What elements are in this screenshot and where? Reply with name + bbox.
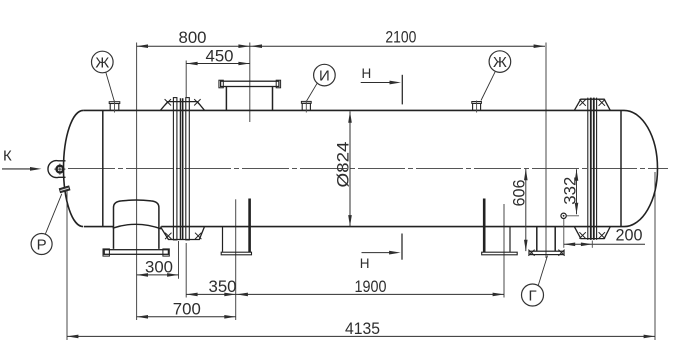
weld mark X bottom-right (195, 233, 201, 239)
centerline (vessel axis, dash-dot) (68, 168, 668, 170)
svg-text:Г: Г (528, 287, 536, 304)
bottom-left nozzle / shell intersection arc (113, 224, 162, 229)
nozzle И (small, mid) (302, 103, 310, 110)
dim 332 vertical (576, 169, 578, 214)
dim 4135 (67, 335, 655, 337)
dim 700 (137, 316, 236, 318)
saddle right web box (509, 227, 511, 252)
svg-text:Ж: Ж (95, 55, 109, 72)
saddle right baseplate (482, 252, 518, 255)
girth flange left: bottom gusset (160, 227, 204, 240)
svg-text:350: 350 (209, 277, 237, 296)
svg-text:1900: 1900 (355, 277, 387, 296)
leader to Г circle (538, 256, 547, 286)
lifting eye lug on left head (48, 161, 66, 178)
wire extension line x=178.5 for dim 300 (178, 241, 180, 279)
weld mark X bottom-left (165, 233, 171, 239)
lifting eye cross horizontal (54, 168, 65, 170)
saddle left thick edge (248, 199, 251, 253)
weld mark X bottom-right (right flange) (599, 232, 605, 238)
top nozzle flange end tab right (276, 80, 280, 88)
dim 200 (564, 243, 645, 245)
wire extension line Г nozzle centerline x=546 (545, 43, 547, 259)
section marker H bottom (401, 234, 403, 260)
svg-text:332: 332 (560, 177, 579, 205)
top nozzle flange end tab left (219, 80, 223, 88)
dim 300 (137, 274, 179, 276)
lifting eye ring (57, 166, 64, 173)
girth flange left: plate A (173, 98, 177, 240)
svg-text:200: 200 (616, 226, 643, 245)
dim φ824 vertical (349, 111, 351, 226)
view arrow K (2, 168, 31, 170)
weld mark X bottom-left (right flange) (579, 232, 585, 238)
girth flange left: top gusset (160, 102, 204, 111)
wire extension line 4135 right x=655 (654, 172, 656, 340)
callout circle Г (522, 284, 544, 306)
dim 606 vertical (525, 169, 527, 251)
svg-text:606: 606 (510, 180, 529, 207)
girth flange right plates (587, 98, 589, 240)
svg-text:Р: Р (37, 236, 47, 253)
wire extension line top nozzle centerline x=249.8 (249, 43, 251, 123)
right head seam weld line (620, 110, 622, 226)
girth flange right: top gusset (574, 99, 610, 110)
saddle support left: web box (222, 227, 224, 252)
nozzle Ж2 (small, right) (473, 103, 481, 110)
svg-text:Ø824: Ø824 (334, 142, 353, 188)
weld X left on Г flange (528, 250, 534, 256)
weld mark X top-right (194, 99, 200, 105)
wire extension line bottom-left nozzle / dim ref x=136.6 (136, 43, 138, 321)
wire extension line girth flange joint x=186.2 upper (185, 61, 187, 98)
svg-text:2100: 2100 (385, 27, 416, 46)
girth flange left: plate B (186, 98, 190, 240)
leader to Ж1 circle (106, 72, 115, 101)
bottom-left nozzle flange tab left (103, 249, 109, 256)
callout circle Ж2 (489, 51, 511, 73)
wire extension line left saddle center x=235.7 (235, 199, 237, 320)
svg-text:300: 300 (145, 257, 173, 276)
nozzle Ж1 (small, near left head) (110, 104, 119, 111)
callout circle P (31, 234, 52, 255)
nozzle Г body (536, 227, 538, 252)
nozzle P stub on head (59, 186, 70, 193)
svg-text:Н: Н (360, 256, 370, 271)
svg-text:Ж: Ж (493, 54, 507, 71)
datum vertical drop to 200 dim (563, 219, 565, 248)
leader to Ж2 circle (481, 72, 495, 101)
weld mark X top-left (right flange) (579, 99, 585, 105)
svg-text:800: 800 (179, 28, 207, 47)
wire extension line 4135 left x=67 (66, 186, 68, 340)
svg-text:К: К (3, 148, 12, 165)
datum horizontal tick (567, 215, 580, 217)
dim 450 (186, 63, 250, 65)
callout circle Ж1 (92, 51, 114, 73)
bottom-left nozzle flange tab right (163, 249, 169, 256)
bottom-left nozzle flange (104, 250, 168, 255)
svg-text:4135: 4135 (345, 319, 380, 338)
left head seam weld line (102, 110, 104, 226)
saddle left baseplate (221, 252, 251, 255)
leader to P circle (45, 194, 62, 234)
lifting eye cross vertical (59, 164, 61, 175)
dim 1900 (236, 293, 504, 295)
nozzle Г flange (529, 251, 564, 254)
wire extension line girth flange joint x=186.2 lower (185, 243, 187, 298)
dim 350 (186, 293, 236, 295)
callout circle И (314, 64, 336, 86)
top nozzle neck (225, 87, 227, 110)
wire extension line right saddle center x=504 (503, 204, 505, 298)
shell bottom line right of big nozzle (161, 226, 624, 228)
girth flange left: gasket lines (180, 98, 182, 239)
saddle support right: thick edge (483, 199, 486, 253)
bottom-left big nozzle body (114, 200, 159, 249)
svg-text:700: 700 (173, 299, 201, 318)
shell top line (83, 109, 624, 111)
dim line 800/2100 (137, 45, 545, 47)
weld mark X top-right (right flange) (599, 99, 605, 105)
leader to И circle (307, 83, 318, 101)
svg-text:Н: Н (362, 66, 372, 81)
svg-text:450: 450 (206, 46, 234, 65)
svg-text:И: И (319, 68, 330, 85)
shell bottom line left of big nozzle (84, 226, 113, 228)
weld X right on Г flange (558, 250, 564, 256)
top nozzle flange (221, 81, 279, 86)
girth flange right: bottom gusset (574, 227, 610, 239)
left elliptical head (64, 110, 84, 226)
right elliptical head (624, 110, 658, 226)
datum point circle (561, 213, 566, 218)
weld mark X top-left (165, 99, 171, 105)
